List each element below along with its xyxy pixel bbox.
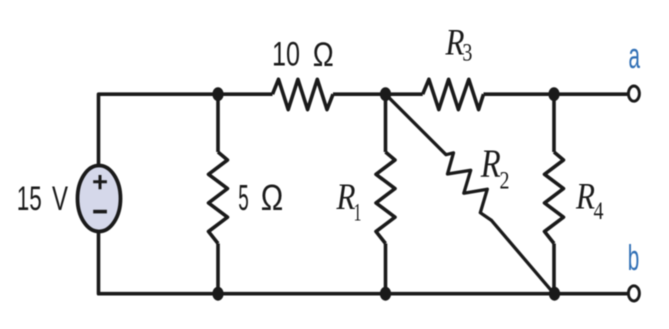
node bottom 2	[380, 287, 391, 301]
wire R1 branch upper	[384, 94, 388, 152]
resistor 5 ohm	[209, 152, 228, 244]
node top 3	[548, 87, 559, 101]
node bottom 1	[212, 287, 223, 301]
wire R1 branch lower	[384, 244, 388, 294]
svg-text:4: 4	[594, 196, 604, 225]
svg-text:b: b	[628, 237, 640, 278]
wire top right to terminal a	[484, 92, 628, 96]
terminal b circle	[628, 286, 639, 301]
svg-text:15: 15	[17, 180, 42, 218]
node top 1	[212, 87, 223, 101]
svg-text:R: R	[480, 141, 501, 186]
voltage source V1	[78, 166, 121, 232]
svg-text:1: 1	[354, 198, 362, 227]
svg-text:3: 3	[462, 37, 472, 66]
resistor R1	[376, 152, 395, 244]
resistor R4	[545, 152, 564, 244]
svg-text:Ω: Ω	[313, 36, 334, 74]
minus sign	[93, 210, 107, 214]
svg-text:R: R	[575, 176, 595, 217]
wire R4 branch upper	[552, 94, 556, 152]
resistor R2 diagonal	[386, 94, 555, 294]
svg-text:10: 10	[272, 36, 300, 74]
wire top left horizontal + left vertical upper	[99, 94, 273, 166]
terminal a circle	[628, 86, 639, 101]
svg-text:Ω: Ω	[261, 177, 284, 218]
resistor 10 ohm	[273, 79, 334, 109]
plus sign	[93, 175, 107, 189]
wire 5 ohm branch lower	[216, 244, 220, 294]
svg-text:2: 2	[500, 166, 510, 195]
svg-text:V: V	[52, 180, 68, 218]
wire R4 branch lower	[552, 244, 556, 294]
resistor R3	[423, 79, 484, 109]
node bottom 3	[549, 287, 560, 301]
wire left vertical lower + bottom horizontal	[99, 230, 628, 293]
wire 5 ohm branch upper	[216, 94, 220, 152]
svg-text:a: a	[629, 35, 641, 76]
wire top middle	[333, 92, 423, 96]
svg-text:5: 5	[238, 177, 249, 218]
node top 2	[380, 87, 391, 101]
